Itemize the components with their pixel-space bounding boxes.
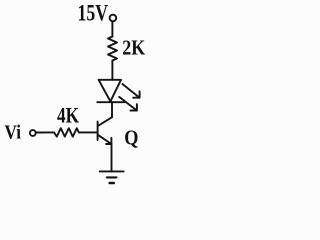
LED light arrow 1 bbox=[122, 84, 139, 98]
transistor Q base bar bbox=[97, 122, 99, 141]
node 15V terminal circle bbox=[110, 15, 117, 22]
LED light arrow 2 bbox=[119, 97, 137, 111]
svg-text:Vi: Vi bbox=[5, 123, 22, 144]
svg-text:2K: 2K bbox=[122, 36, 145, 60]
svg-text:15V: 15V bbox=[78, 1, 109, 26]
svg-text:4K: 4K bbox=[57, 103, 79, 128]
node Vi input terminal circle bbox=[30, 130, 36, 136]
LED D1 cathode bar bbox=[97, 101, 125, 103]
wire emitter to ground bbox=[111, 144, 113, 171]
wire supply to resistor bbox=[111, 22, 113, 37]
ground middle plate bbox=[107, 176, 117, 178]
ground bottom dash bbox=[110, 182, 114, 185]
resistor R 2K bbox=[108, 37, 117, 61]
ground top plate bbox=[100, 170, 124, 172]
wire resistor to base bbox=[79, 131, 97, 133]
svg-text:Q: Q bbox=[124, 126, 138, 150]
resistor R 4K bbox=[54, 128, 79, 136]
transistor Q collector diagonal bbox=[98, 117, 112, 126]
wire resistor to LED bbox=[111, 61, 113, 80]
transistor Q emitter arrowhead bbox=[106, 138, 111, 144]
wire input to resistor bbox=[36, 131, 54, 133]
LED D1 triangle bbox=[99, 80, 121, 102]
wire LED to collector bbox=[111, 102, 113, 117]
transistor Q emitter diagonal bbox=[98, 135, 112, 144]
